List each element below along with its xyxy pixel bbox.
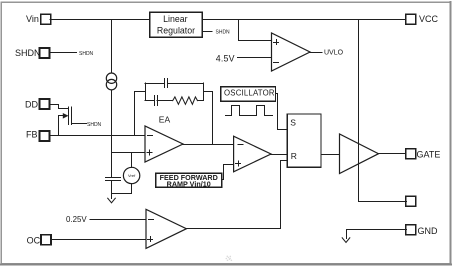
block Linear Regulator: [150, 12, 203, 37]
wire PWM output to latch R: [271, 154, 287, 156]
wire OC to comparator +: [51, 239, 146, 241]
voltage reference Vref: [123, 167, 139, 183]
wire oscillator to latch S: [276, 94, 288, 130]
svg-text:GND: GND: [418, 226, 439, 236]
op-amp OC comparator: [146, 209, 186, 248]
transistor Q1 body arrow: [59, 115, 64, 117]
ground arrow left: [111, 193, 113, 199]
pin OC: [41, 235, 51, 245]
watermark dots: [226, 255, 233, 261]
op-amp UVLO comparator: [272, 33, 311, 71]
transistor Q1 channel bar: [71, 107, 73, 125]
wire feed forward to PWM +: [222, 165, 234, 180]
current source I1: [106, 73, 116, 83]
wire mosfet gate to SHDN label: [71, 123, 86, 125]
svg-text:Regulator: Regulator: [157, 26, 195, 36]
wire OC comparator to latch: [187, 161, 288, 229]
svg-text:SHDN: SHDN: [15, 48, 41, 58]
wire right rail drop to lower pin: [359, 20, 407, 202]
svg-text:0.25V: 0.25V: [66, 215, 87, 224]
pin unnamed: [406, 196, 416, 206]
resistor R1: [173, 97, 198, 104]
svg-text:S: S: [290, 118, 296, 128]
wire current source to EA +: [111, 90, 113, 178]
svg-text:Vin: Vin: [26, 14, 39, 24]
wire DD to mosfet drain: [50, 105, 69, 109]
block FEED FORWARD RAMP: [156, 173, 222, 187]
wire Vref top to EA + line: [131, 153, 133, 168]
svg-text:EA: EA: [159, 114, 171, 124]
capacitor C1 top branch: [145, 83, 165, 85]
wire 4.5V to UVLO minus: [238, 57, 272, 59]
ground arrow right: [342, 238, 350, 243]
op-amp PWM comparator: [234, 136, 271, 172]
wire FB to EA inverting input: [49, 135, 145, 137]
capacitor C3 at Vref: [106, 177, 121, 179]
block OSCILLATOR: [221, 87, 276, 102]
pin DD: [40, 99, 50, 109]
pin Vin: [41, 14, 51, 24]
capacitor C2 bottom branch: [145, 100, 154, 102]
svg-text:FB: FB: [26, 130, 38, 140]
pin FB: [40, 131, 50, 141]
wire feedback loop right side: [203, 83, 205, 101]
wire EA noninverting input: [112, 152, 146, 154]
svg-text:SHDN: SHDN: [216, 29, 231, 35]
wire latch output to driver: [321, 154, 340, 156]
wire rail drop to current source: [111, 20, 113, 74]
wire top rail Vin to VCC: [50, 19, 406, 21]
waveform clock pulses: [226, 106, 273, 116]
svg-text:UVLO: UVLO: [324, 49, 344, 56]
wire 0.25V to OC comparator minus: [90, 219, 146, 221]
svg-text:OSCILLATOR: OSCILLATOR: [224, 88, 275, 97]
wire rail drop to UVLO +: [239, 20, 272, 41]
wire cap to ground node: [112, 181, 132, 194]
pin GATE: [406, 149, 416, 159]
pin GND: [406, 225, 416, 235]
svg-text:Linear: Linear: [163, 14, 188, 24]
wire driver to GATE: [379, 153, 407, 155]
wire mosfet source down to FB line: [58, 116, 60, 136]
svg-text:Vref: Vref: [128, 173, 136, 178]
wire UVLO output: [310, 52, 322, 54]
op-amp EA error amplifier: [145, 126, 183, 162]
svg-text:RAMP Vin/10: RAMP Vin/10: [167, 180, 211, 189]
svg-text:SHDN: SHDN: [87, 122, 102, 128]
svg-text:VCC: VCC: [419, 14, 439, 24]
transistor Q1 gate bar: [68, 107, 70, 125]
svg-text:R: R: [291, 151, 297, 161]
svg-text:4.5V: 4.5V: [216, 54, 235, 64]
op-amp output driver: [340, 134, 379, 174]
svg-text:SHDN: SHDN: [79, 51, 94, 57]
svg-text:OC: OC: [27, 236, 41, 246]
latch U2 SR: [287, 114, 321, 167]
pin SHDN: [40, 48, 50, 58]
wire feedback loop left side: [145, 83, 147, 101]
wire regulator shdn output: [202, 31, 212, 33]
pin VCC: [406, 14, 416, 24]
wire EA output to PWM minus: [183, 144, 234, 146]
wire EA feedback tap: [135, 92, 146, 136]
wire feedback to EA output: [204, 92, 213, 145]
svg-text:GATE: GATE: [417, 149, 441, 159]
wire GND to ground arrow: [347, 230, 407, 239]
svg-text:DD: DD: [25, 99, 38, 109]
wire SHDN stub: [49, 52, 77, 54]
